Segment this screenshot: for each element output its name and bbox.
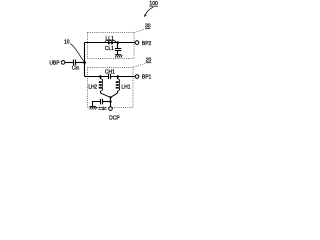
junction node LH1 top <box>116 75 119 78</box>
wire CH1 to BP1 <box>111 76 136 78</box>
ground under CL1 <box>115 55 123 58</box>
wire UBP to Cin <box>65 62 74 64</box>
wire Cdc to ground <box>93 102 101 107</box>
dashed leader 30 <box>134 29 145 33</box>
inductor LH2 <box>88 77 102 94</box>
wire tee to Cdc <box>103 101 111 103</box>
svg-text:Cin: Cin <box>72 66 80 72</box>
dashed box 30 <box>88 33 135 59</box>
dashed leader 20 <box>133 63 145 67</box>
label 30 <box>145 24 151 30</box>
terminal BP1 <box>135 75 151 81</box>
wire top branch into box 30 <box>85 42 136 44</box>
wire node to CL1 <box>117 43 119 49</box>
wire CL1 to ground <box>117 51 119 55</box>
capacitor CL1 <box>105 46 122 52</box>
arrow leader from 100 <box>144 7 153 17</box>
wire riser vertical <box>84 43 86 77</box>
wire LH2 bottom diagonal <box>101 93 111 97</box>
terminal UBP <box>49 60 65 66</box>
wire bottom branch into box 20 <box>85 76 109 78</box>
inductor LH1 <box>116 77 131 94</box>
svg-text:10: 10 <box>64 39 70 45</box>
svg-text:LH1: LH1 <box>121 84 130 90</box>
wire Cin to input node <box>76 62 85 64</box>
junction node Cdc tee <box>109 100 111 102</box>
wire LH1 bottom diagonal <box>111 93 118 97</box>
capacitor CH1 <box>105 70 115 80</box>
junction node LL1/CL1 <box>116 41 119 44</box>
terminal DCP <box>109 107 121 122</box>
dashed box 20 <box>88 68 134 108</box>
svg-text:BP2: BP2 <box>142 41 152 47</box>
wire common node down <box>110 97 112 106</box>
terminal BP2 <box>135 41 151 47</box>
capacitor Cin <box>72 60 80 72</box>
svg-text:DCP: DCP <box>109 116 120 120</box>
junction node coil common <box>109 96 111 98</box>
junction input node <box>83 61 86 64</box>
capacitor Cdc <box>98 99 107 111</box>
svg-text:Cdc: Cdc <box>98 106 107 111</box>
svg-text:LH2: LH2 <box>88 84 97 90</box>
svg-text:LL1: LL1 <box>106 36 115 42</box>
svg-text:CL1: CL1 <box>105 46 114 52</box>
ground under Cdc <box>89 107 97 110</box>
svg-text:UBP: UBP <box>49 60 60 66</box>
inductor LL1 <box>105 36 116 44</box>
label 100 <box>149 1 158 7</box>
junction node LH2 top <box>99 75 102 78</box>
leader from 10 to input node <box>70 44 84 62</box>
svg-text:BP1: BP1 <box>142 75 152 81</box>
label 20 <box>146 58 152 64</box>
